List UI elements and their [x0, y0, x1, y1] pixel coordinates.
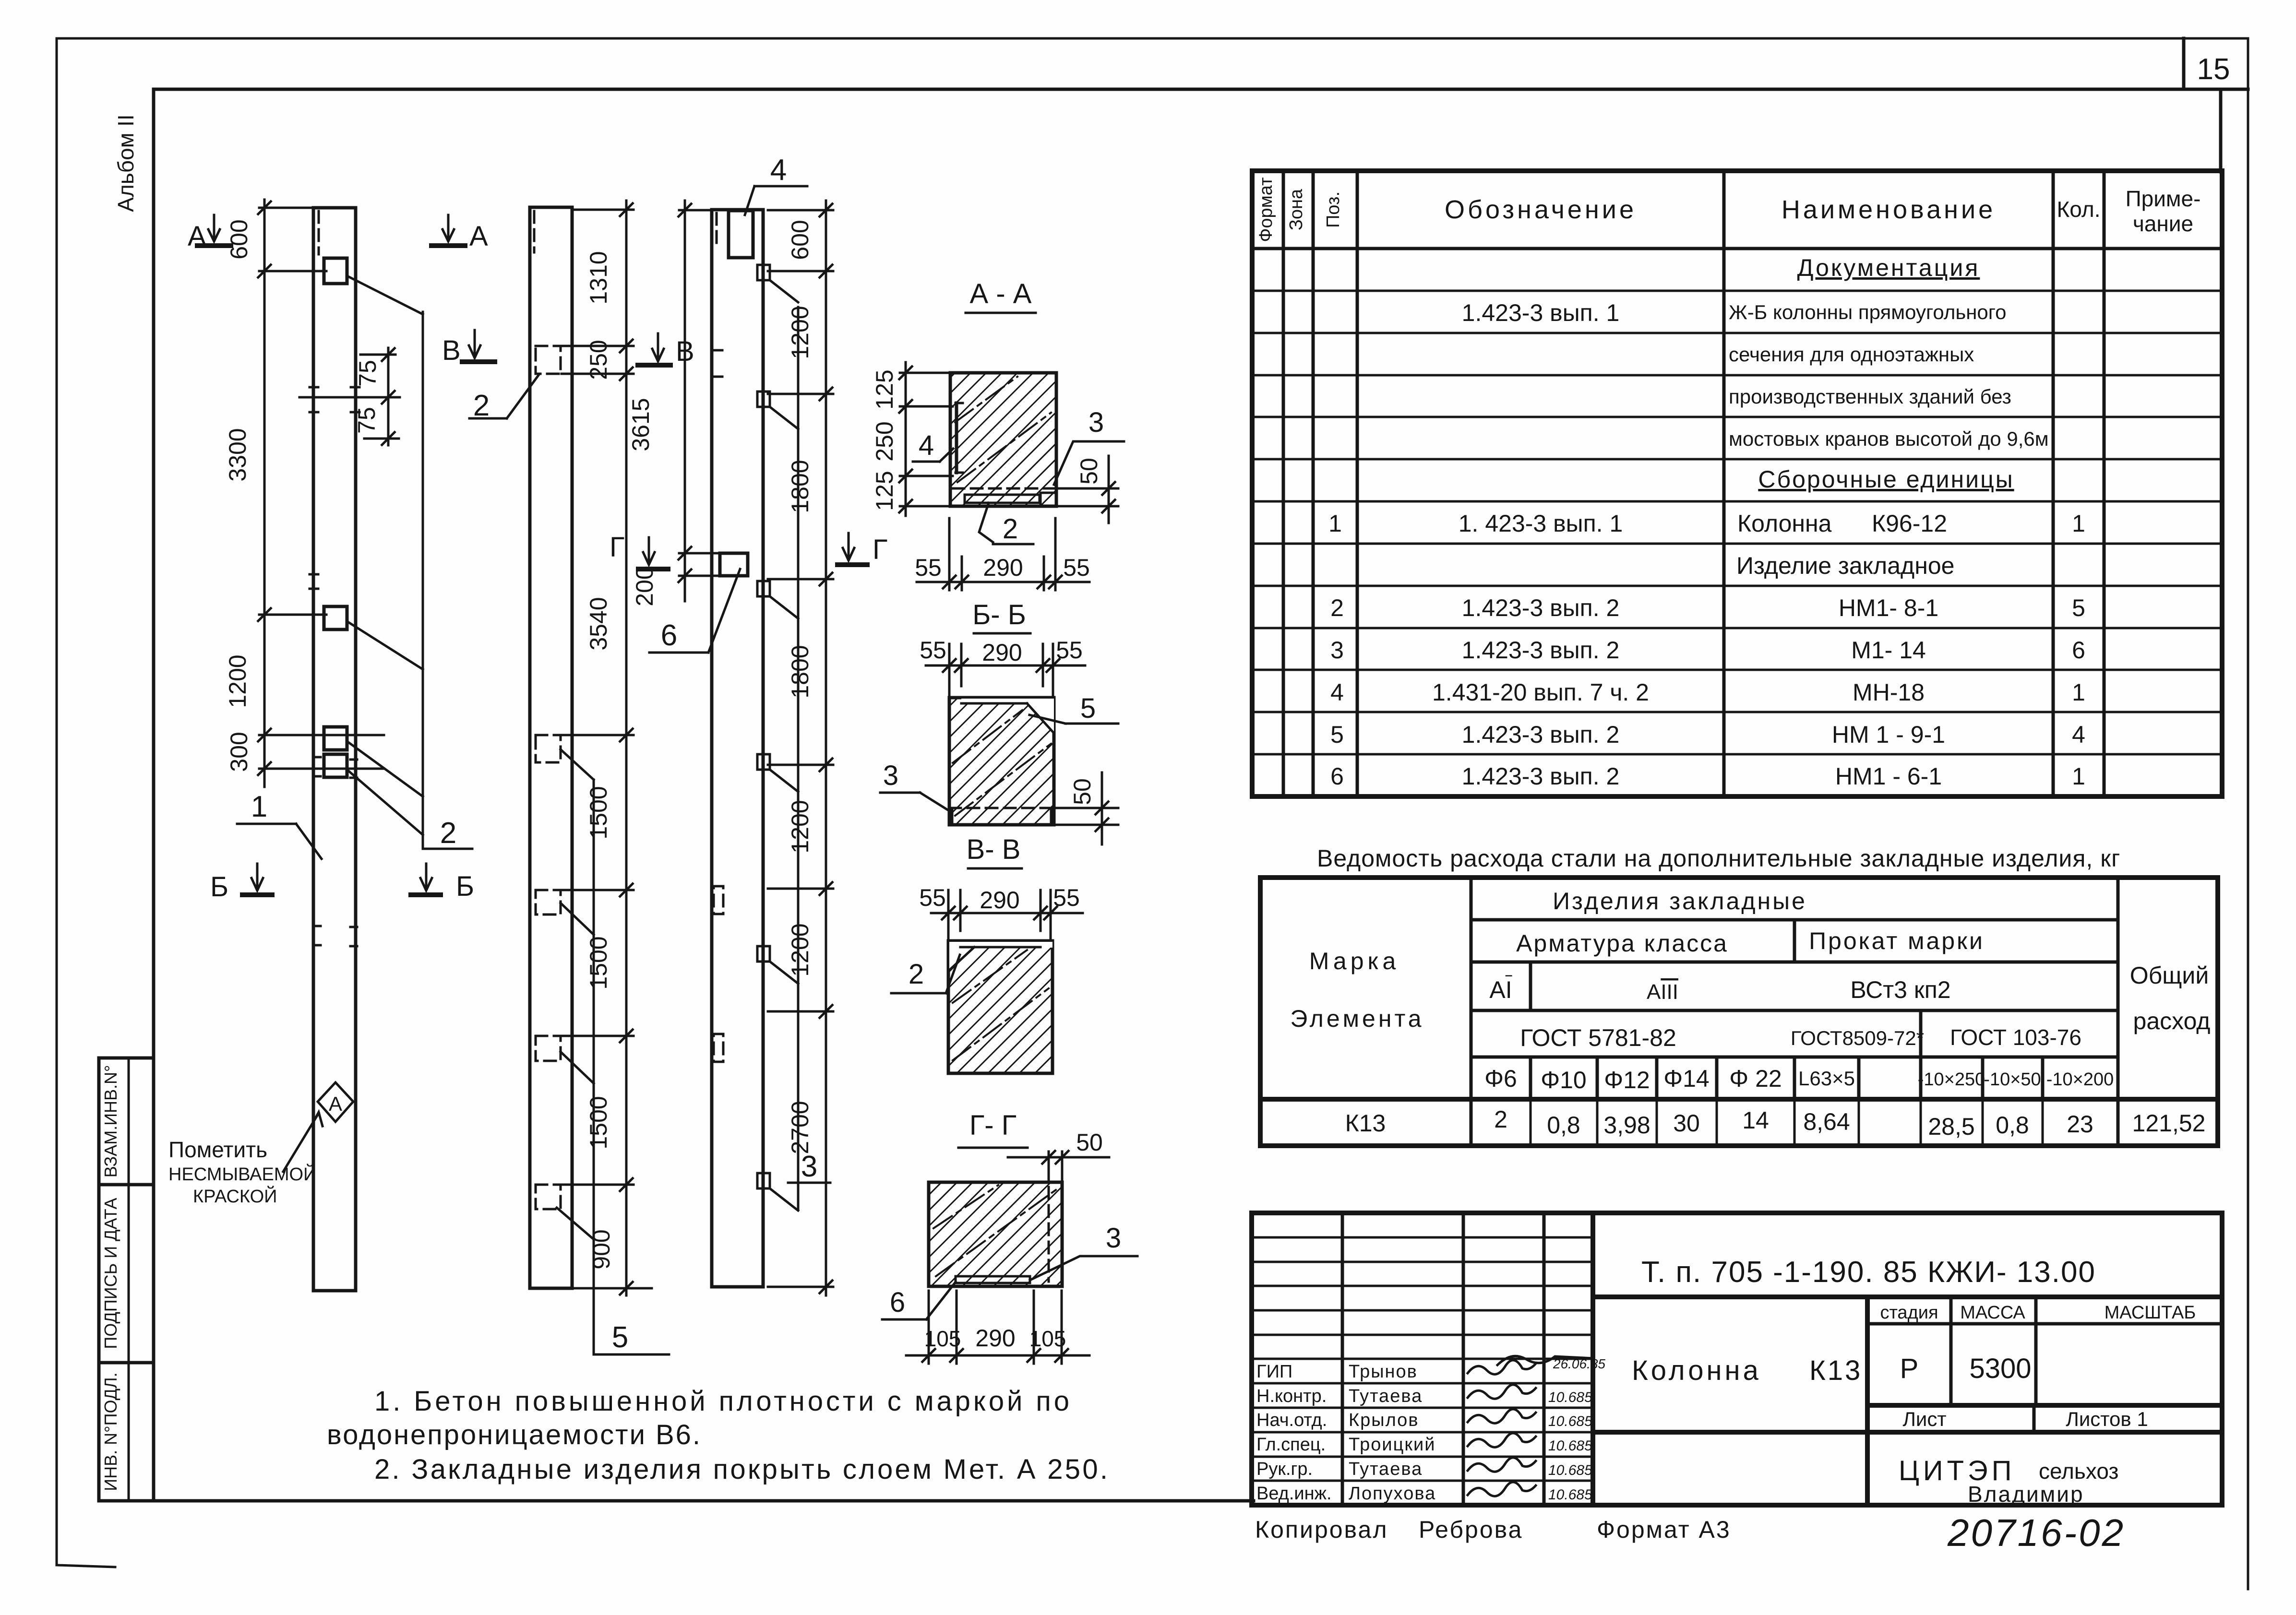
svg-text:5: 5 [2072, 594, 2085, 621]
svg-text:1: 1 [2072, 763, 2085, 790]
svg-text:1800: 1800 [787, 460, 813, 513]
svg-text:1310: 1310 [585, 251, 612, 304]
svg-text:Б- Б: Б- Б [972, 599, 1026, 630]
svg-text:В- В: В- В [967, 834, 1021, 865]
svg-text:К96-12: К96-12 [1872, 510, 1947, 537]
svg-text:Φ14: Φ14 [1663, 1065, 1710, 1092]
hidden plate on column 2 (1532) [536, 735, 561, 762]
section V-V top dims 55/290/55 [919, 884, 1083, 943]
svg-text:3: 3 [1088, 407, 1104, 438]
svg-text:Г: Г [873, 534, 887, 565]
svg-text:1: 1 [251, 790, 267, 823]
svg-text:5300: 5300 [1969, 1353, 2031, 1384]
svg-text:2: 2 [1330, 594, 1344, 621]
section A-A label 3 leader [1054, 407, 1124, 485]
svg-text:Φ6: Φ6 [1484, 1065, 1517, 1092]
label 6 leader [649, 569, 740, 653]
embedded plate 2 on column 1 (lower pair) [324, 727, 347, 777]
svg-text:3: 3 [883, 760, 898, 791]
svg-text:L63×5: L63×5 [1798, 1067, 1855, 1090]
svg-text:Г- Г: Г- Г [969, 1110, 1016, 1141]
section G-G bottom dims 105/290/105 [906, 1291, 1089, 1364]
svg-text:К13: К13 [1809, 1355, 1862, 1386]
svg-text:Обозначение: Обозначение [1445, 195, 1637, 224]
svg-text:10.685: 10.685 [1548, 1487, 1592, 1503]
svg-text:10.685: 10.685 [1548, 1413, 1592, 1429]
svg-text:Пометить: Пометить [168, 1137, 267, 1162]
leaders from lower plates column 2 [557, 749, 594, 1354]
svg-text:125: 125 [871, 471, 898, 511]
svg-text:В: В [442, 335, 461, 366]
svg-text:1.423-3 вып. 2: 1.423-3 вып. 2 [1462, 763, 1620, 790]
specification table grid [1252, 171, 2222, 796]
svg-text:290: 290 [980, 887, 1019, 914]
svg-text:0,8: 0,8 [1996, 1112, 2029, 1139]
svg-text:ПОДПИСЬ И ДАТА: ПОДПИСЬ И ДАТА [101, 1198, 120, 1349]
section A-A bottom dims 55/290/55 [915, 518, 1090, 590]
svg-text:2. Закладные изделия п: 2. Закладные изделия покрыть слоем Мет. … [374, 1454, 1109, 1485]
section B-B title [972, 599, 1030, 633]
svg-text:ГИП: ГИП [1256, 1362, 1292, 1382]
svg-text:125: 125 [871, 369, 898, 409]
svg-text:НМ 1 - 9-1: НМ 1 - 9-1 [1832, 721, 1945, 748]
svg-text:55: 55 [915, 554, 942, 581]
svg-text:водонепроницаемости В6.: водонепроницаемости В6. [327, 1419, 701, 1450]
svg-text:ГОСТ8509-72*: ГОСТ8509-72* [1791, 1027, 1924, 1049]
hidden plate on column 2 (2159) [536, 1036, 561, 1061]
svg-text:6: 6 [1330, 763, 1344, 790]
hidden plate on column 2 (2469) [536, 1185, 561, 1209]
svg-text:Крылов: Крылов [1349, 1410, 1419, 1430]
svg-text:121,52: 121,52 [2132, 1110, 2206, 1137]
svg-text:К13: К13 [1345, 1110, 1386, 1137]
svg-text:300: 300 [226, 732, 252, 772]
column elevation 1 outline [313, 208, 356, 1291]
svg-text:Зона: Зона [1286, 189, 1306, 230]
svg-text:1: 1 [2072, 510, 2085, 537]
hidden edge marks column 3 left [712, 350, 723, 1062]
section A-A body [950, 373, 1056, 506]
svg-text:3: 3 [801, 1150, 817, 1183]
svg-text:3540: 3540 [585, 597, 612, 650]
svg-text:250: 250 [585, 340, 612, 380]
svg-text:2: 2 [440, 817, 456, 850]
svg-text:1500: 1500 [585, 936, 612, 989]
svg-text:чание: чание [2133, 211, 2193, 236]
svg-text:2: 2 [1494, 1106, 1507, 1133]
section A-A label 2 leader [979, 503, 1033, 545]
svg-text:ИНВ. N°ПОДЛ.: ИНВ. N°ПОДЛ. [101, 1372, 120, 1491]
svg-text:НМ1- 8-1: НМ1- 8-1 [1839, 594, 1938, 621]
svg-text:-10×200: -10×200 [2046, 1069, 2114, 1090]
edge plates 3 on column 3 right edge [757, 265, 798, 1211]
dimension chain column 1: 600/3300/1200/300 [224, 200, 384, 787]
embedded plate 2 on column 1 (middle) [324, 606, 347, 629]
svg-text:Н.контр.: Н.контр. [1256, 1386, 1327, 1406]
section mark B (bottom) left [210, 864, 272, 902]
svg-text:Формат А3: Формат А3 [1597, 1516, 1731, 1543]
svg-text:1. Бетон повышенной плот: 1. Бетон повышенной плотности с маркой п… [374, 1386, 1070, 1417]
svg-text:Документация: Документация [1797, 254, 1980, 281]
stage/mass/scale headers [1880, 1303, 2196, 1384]
signature rows [1256, 1362, 1592, 1504]
edge marks on column 1 [310, 387, 359, 946]
specification table headers [1256, 178, 2200, 242]
svg-text:5: 5 [612, 1321, 628, 1354]
svg-text:2: 2 [909, 959, 924, 990]
svg-text:1.423-3 вып. 2: 1.423-3 вып. 2 [1462, 637, 1620, 664]
label 1 (column mark) [237, 790, 322, 859]
section mark G right [837, 533, 887, 565]
column elevation 3 outline [712, 210, 763, 1287]
svg-text:600: 600 [226, 219, 252, 259]
svg-text:Сборочные единицы: Сборочные единицы [1758, 466, 2014, 493]
svg-text:Приме-: Приме- [2126, 186, 2201, 211]
hidden plate on column 2 (B-B level) [536, 346, 561, 374]
section V-V body [948, 941, 1052, 1073]
section G-G title [958, 1110, 1028, 1148]
svg-text:1500: 1500 [585, 1096, 612, 1149]
svg-text:Поз.: Поз. [1323, 191, 1343, 228]
svg-text:М1- 14: М1- 14 [1851, 637, 1926, 664]
svg-text:МН-18: МН-18 [1853, 679, 1925, 706]
svg-text:Рук.гр.: Рук.гр. [1256, 1459, 1313, 1479]
svg-text:6: 6 [661, 619, 677, 652]
label 5 for column 2 plates [594, 1321, 669, 1354]
svg-text:14: 14 [1742, 1107, 1769, 1134]
inner drawing frame [154, 89, 2248, 1501]
svg-text:55: 55 [1053, 884, 1080, 911]
footer copied by [1255, 1516, 1731, 1543]
svg-text:АIII: АIII [1647, 980, 1678, 1004]
anchor item 4 (MN-18) at column 3 top [729, 211, 753, 258]
svg-text:290: 290 [975, 1325, 1015, 1352]
svg-text:Листов 1: Листов 1 [2066, 1408, 2148, 1430]
svg-text:ВСт3 кп2: ВСт3 кп2 [1850, 976, 1950, 1003]
svg-text:Φ10: Φ10 [1541, 1067, 1587, 1093]
svg-text:55: 55 [919, 884, 946, 911]
svg-text:1500: 1500 [585, 786, 612, 839]
svg-text:26.06.85: 26.06.85 [1553, 1356, 1605, 1371]
title block name [1632, 1355, 1862, 1386]
svg-text:Тутаева: Тутаева [1349, 1459, 1423, 1479]
svg-text:900: 900 [588, 1229, 615, 1269]
svg-text:Нач.отд.: Нач.отд. [1256, 1410, 1327, 1430]
section B-B dim 50 [1056, 772, 1118, 844]
section G-G label 3 leader [1030, 1223, 1137, 1280]
svg-text:Б: Б [456, 871, 474, 902]
svg-text:А - А: А - А [970, 278, 1032, 309]
section mark A left [188, 215, 231, 252]
svg-text:5: 5 [1080, 693, 1096, 724]
svg-text:Прокат марки: Прокат марки [1809, 927, 1985, 954]
svg-text:Кол.: Кол. [2057, 197, 2101, 222]
svg-text:290: 290 [982, 639, 1022, 666]
svg-text:сечения для одноэтажных: сечения для одноэтажных [1729, 343, 1974, 366]
svg-text:75: 75 [354, 360, 381, 387]
svg-text:Реброва: Реброва [1419, 1516, 1523, 1543]
section mark B (bottom) right [411, 864, 474, 902]
section A-A dim 50 [1058, 456, 1118, 523]
dimension chain column 3 left: 3615/200 [627, 201, 722, 606]
svg-text:55: 55 [920, 637, 946, 664]
svg-text:сельхоз: сельхоз [2039, 1459, 2119, 1484]
section rect 6 on column 3 [720, 553, 748, 576]
svg-text:28,5: 28,5 [1928, 1113, 1974, 1140]
svg-text:Владимир: Владимир [1968, 1482, 2084, 1507]
svg-text:50: 50 [1076, 458, 1102, 485]
svg-text:МАСШТАБ: МАСШТАБ [2105, 1303, 2196, 1323]
svg-text:Φ 22: Φ 22 [1729, 1065, 1782, 1092]
svg-text:3: 3 [1106, 1223, 1121, 1254]
column elevation 2 outline [530, 207, 572, 1288]
section V-V title [967, 834, 1022, 868]
section G-G dim 50 [1008, 1129, 1109, 1180]
hidden plate on column 2 (1855) [536, 890, 561, 914]
svg-text:-10×50: -10×50 [1984, 1069, 2041, 1090]
svg-text:1.431-20 вып. 7 ч. 2: 1.431-20 вып. 7 ч. 2 [1432, 679, 1649, 706]
svg-text:105: 105 [1029, 1326, 1066, 1351]
svg-text:ГОСТ 103-76: ГОСТ 103-76 [1950, 1025, 2081, 1050]
section mark V right [638, 333, 694, 367]
section V-V label 2 leader [891, 955, 960, 993]
svg-text:55: 55 [1056, 637, 1083, 664]
section B-B body [949, 698, 1054, 825]
svg-text:2: 2 [1003, 513, 1018, 545]
note: mark with indelible paint [168, 1112, 323, 1207]
section B-B top dims 55/290/55 [920, 637, 1085, 701]
svg-text:Гл.спец.: Гл.спец. [1256, 1435, 1326, 1455]
svg-text:0,8: 0,8 [1547, 1112, 1580, 1139]
svg-text:1. 423-3 вып. 1: 1. 423-3 вып. 1 [1459, 510, 1623, 537]
svg-text:НЕСМЫВАЕМОЙ: НЕСМЫВАЕМОЙ [168, 1163, 316, 1185]
section mark A right [431, 215, 488, 252]
svg-text:Ж-Б колонны прямоугольного: Ж-Б колонны прямоугольного [1729, 301, 2007, 323]
svg-text:1200: 1200 [787, 923, 813, 976]
svg-text:200: 200 [631, 566, 658, 606]
svg-text:Г: Г [610, 532, 624, 563]
stamp box INV N PODL [99, 1363, 154, 1501]
svg-text:1800: 1800 [787, 645, 813, 698]
svg-text:15: 15 [2197, 53, 2230, 86]
svg-text:Вед.инж.: Вед.инж. [1256, 1484, 1332, 1504]
sheet counters [1902, 1408, 2148, 1430]
sheet number box 15 [2184, 38, 2230, 172]
stamp box PODPIS I DATA [99, 1185, 154, 1363]
svg-text:10.685: 10.685 [1548, 1438, 1592, 1454]
svg-text:290: 290 [983, 554, 1023, 581]
embedded plate 2 on column 1 (top) [324, 258, 347, 284]
section B-B label 3 leader [880, 760, 949, 811]
svg-text:А: А [329, 1092, 342, 1115]
svg-text:4: 4 [919, 430, 934, 461]
svg-text:ВЗАМ.ИНВ.N°: ВЗАМ.ИНВ.N° [101, 1065, 120, 1178]
svg-text:23: 23 [2067, 1111, 2093, 1138]
svg-text:стадия: стадия [1880, 1303, 1938, 1323]
svg-text:75: 75 [353, 407, 380, 434]
svg-text:250: 250 [871, 421, 898, 461]
svg-text:600: 600 [787, 220, 813, 260]
svg-text:расход: расход [2133, 1008, 2211, 1034]
label 3 bottom of chain [788, 1150, 830, 1183]
svg-text:Колонна: Колонна [1632, 1355, 1761, 1386]
section mark G left [610, 532, 668, 569]
signatures (scribbles) [1468, 1356, 1605, 1496]
svg-text:1.423-3 вып. 2: 1.423-3 вып. 2 [1462, 721, 1620, 748]
svg-text:1200: 1200 [224, 654, 251, 708]
section G-G label 6 leader [882, 1282, 956, 1319]
svg-text:1: 1 [2072, 679, 2085, 706]
svg-text:6: 6 [2072, 637, 2085, 664]
svg-text:Колонна: Колонна [1737, 510, 1832, 537]
svg-text:1200: 1200 [787, 306, 813, 359]
svg-text:Арматура класса: Арматура класса [1516, 930, 1728, 957]
steel table data row K13 [1345, 1106, 2206, 1140]
svg-text:Лист: Лист [1902, 1408, 1946, 1430]
svg-text:А: А [469, 221, 488, 252]
svg-text:2700: 2700 [787, 1101, 813, 1154]
svg-text:4: 4 [770, 154, 787, 187]
dimension chain column 3 right: 600/1200/1800/1800/1200/1200/2700 [768, 201, 833, 1295]
svg-text:производственных зданий без: производственных зданий без [1729, 385, 2011, 408]
steel table headers [1290, 888, 2210, 1093]
svg-text:Б: Б [210, 871, 228, 902]
section G-G body [929, 1182, 1062, 1286]
svg-text:Марка: Марка [1309, 948, 1400, 974]
svg-text:8,64: 8,64 [1803, 1108, 1850, 1135]
svg-text:-10×250: -10×250 [1918, 1069, 1985, 1090]
svg-text:1.423-3 вып. 1: 1.423-3 вып. 1 [1462, 299, 1620, 326]
svg-text:АI: АI [1489, 976, 1512, 1003]
svg-text:Ведомость расхода стали на: Ведомость расхода стали на дополнительны… [1317, 845, 2120, 872]
svg-text:10.685: 10.685 [1548, 1462, 1592, 1478]
svg-text:КРАСКОЙ: КРАСКОЙ [193, 1185, 277, 1207]
steel table grid [1260, 878, 2218, 1146]
marker diamond A (paint mark) [318, 1082, 353, 1122]
svg-text:20716-02: 20716-02 [1947, 1511, 2125, 1554]
svg-text:1200: 1200 [787, 800, 813, 853]
svg-text:Тутаева: Тутаева [1349, 1386, 1423, 1406]
svg-text:4: 4 [1330, 679, 1344, 706]
svg-text:55: 55 [1063, 554, 1090, 581]
svg-text:Изделия закладные: Изделия закладные [1553, 888, 1807, 914]
title block grid [1252, 1213, 2222, 1505]
svg-text:мостовых кранов высотой до 9,: мостовых кранов высотой до 9,6м [1729, 427, 2049, 450]
svg-text:Троицкий: Троицкий [1349, 1435, 1435, 1455]
section A-A title [966, 278, 1036, 313]
dimension 75/75 at column 1 plate [299, 347, 400, 446]
stamp box VZAM.INV [99, 1058, 154, 1185]
label 4 leader [745, 154, 807, 215]
svg-text:НМ1 - 6-1: НМ1 - 6-1 [1835, 763, 1942, 790]
svg-text:50: 50 [1076, 1129, 1103, 1156]
svg-text:Изделие закладное: Изделие закладное [1736, 552, 1954, 579]
svg-text:50: 50 [1069, 778, 1096, 805]
section A-A left dims 125/250/125 [871, 362, 953, 516]
svg-text:1.423-3 вып. 2: 1.423-3 вып. 2 [1462, 594, 1620, 621]
svg-text:Т. п. 705 -1-190. 85 КЖИ-: Т. п. 705 -1-190. 85 КЖИ- 13.00 [1641, 1256, 2096, 1289]
svg-text:Альбом II: Альбом II [113, 114, 138, 212]
label 2 leader on column 2 [469, 375, 538, 422]
svg-text:Наименование: Наименование [1782, 195, 1996, 224]
svg-text:3300: 3300 [224, 428, 251, 481]
svg-text:МАССА: МАССА [1960, 1303, 2025, 1323]
leader collector and label 2 (column 1 plates) [347, 276, 472, 850]
svg-text:Общий: Общий [2130, 962, 2209, 989]
svg-text:Р: Р [1900, 1353, 1919, 1384]
svg-text:1: 1 [1328, 510, 1342, 537]
svg-text:3: 3 [1330, 637, 1344, 664]
svg-text:Элемента: Элемента [1290, 1005, 1424, 1032]
svg-text:Трынов: Трынов [1349, 1362, 1418, 1382]
organization [1899, 1455, 2119, 1507]
section B-B label 5 leader [1029, 693, 1118, 724]
svg-text:Формат: Формат [1256, 178, 1276, 242]
svg-text:105: 105 [924, 1326, 961, 1351]
section mark V left [442, 330, 495, 366]
svg-text:3,98: 3,98 [1603, 1112, 1650, 1139]
svg-text:6: 6 [890, 1287, 905, 1318]
svg-text:5: 5 [1330, 721, 1344, 748]
svg-text:Лопухова: Лопухова [1349, 1484, 1436, 1504]
svg-text:10.685: 10.685 [1548, 1389, 1592, 1405]
svg-text:3615: 3615 [627, 398, 654, 451]
svg-text:ГОСТ 5781-82: ГОСТ 5781-82 [1520, 1024, 1676, 1051]
svg-text:Φ12: Φ12 [1604, 1067, 1650, 1093]
specification rows text [1328, 254, 2085, 790]
svg-text:4: 4 [2072, 721, 2085, 748]
dimension chain column 2: 1310/250/3540/1500/1500/1500/900 [562, 201, 652, 1295]
svg-text:30: 30 [1673, 1110, 1700, 1137]
section A-A label 4 [913, 430, 953, 462]
svg-text:Копировал: Копировал [1255, 1516, 1388, 1543]
